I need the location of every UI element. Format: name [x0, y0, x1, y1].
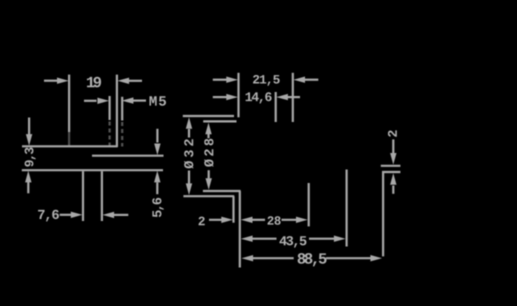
left view: mid step edge H_mid [92, 155, 164, 157]
label 28 [268, 216, 281, 224]
label M5 [149, 96, 166, 105]
dim 14,6: left arrow tail [213, 96, 228, 98]
right view: Ø32 bottom edge [183, 195, 234, 197]
label 21,5 [253, 75, 280, 86]
right view: extension line VR2 (14,6 right) [275, 92, 277, 122]
label 19 [87, 77, 101, 88]
dim 19: right arrow tail [129, 80, 143, 82]
left view: pin extension line V4 (7,6 left) [82, 171, 84, 221]
dim 5,6: bottom arrow stem [156, 183, 158, 195]
label 2 (right, rotated) [388, 130, 397, 136]
right view: extension line V43R (43,5 right) [346, 170, 348, 247]
dim 7,6: left arrow tail [60, 214, 72, 216]
dim 21,5: right arrowhead [293, 77, 305, 83]
dim 28: right arrowhead [296, 217, 308, 223]
dim 9,3: bottom arrowhead [25, 171, 31, 183]
label 43,5 [279, 236, 306, 248]
right view: membrane tick2 [382, 171, 400, 173]
dim 2 (left): arrowhead [221, 217, 233, 223]
dim 2 (right): bottom arrow stem [392, 186, 394, 194]
dim 2 (left): arrow tail [209, 219, 226, 221]
dim M5: left arrow tail [84, 100, 97, 102]
dim 88,5: left arrow tail [252, 257, 294, 259]
left view: extension line V1 (19 left) [68, 75, 70, 132]
dim M5: right arrow tail [133, 99, 146, 101]
dim 7,6: right arrowhead [103, 212, 115, 218]
right view: Ø32 top edge [183, 115, 234, 117]
dim 9,3: top arrowhead [26, 134, 32, 146]
dim Ø32: top arrowhead [186, 117, 192, 129]
label diameter 32 (rotated) [184, 139, 193, 168]
dim 7,6: left arrowhead [71, 212, 83, 218]
dim 5,6: top arrowhead [154, 144, 160, 156]
dim Ø28: bottom arrowhead [206, 178, 212, 190]
right view: extension line V28R (28 right) [308, 183, 310, 226]
dim 5,6: top arrow stem [156, 129, 158, 143]
right view: extension line VR1 (21,5/14,6 left) [237, 73, 239, 118]
left view: M5 thread line V3b [121, 97, 123, 121]
right view: step edge vertical A [232, 196, 234, 223]
dim 21,5: right arrow tail [304, 79, 319, 81]
label 88,5 [298, 253, 327, 266]
label 2 (left) [199, 217, 205, 226]
dim 14,6: right arrowhead [276, 94, 288, 100]
left view: M5 thread line V3 [108, 96, 110, 120]
left view: top face edge H1 [22, 145, 118, 147]
left view: extension line V2 (19 / M5 right) [116, 75, 118, 147]
dim 28: left arrow tail [250, 219, 266, 221]
dim 43,5: right arrow tail [309, 238, 334, 240]
dim 88,5: right arrow tail [326, 257, 371, 259]
dim 9,3: bottom arrow stem [27, 182, 29, 193]
dim 14,6: left arrowhead [226, 94, 238, 100]
dim 21,5: left arrow tail [213, 79, 228, 81]
dim Ø28: top arrowhead [205, 123, 211, 135]
dim 5,6: bottom arrowhead [154, 171, 160, 183]
dim 2 (right): top arrowhead [390, 153, 396, 165]
right view: extension line V88R (88,5 right) [382, 171, 384, 256]
dim Ø28: bottom arrow stem [208, 170, 210, 178]
label 5,6 (rotated) [152, 198, 163, 217]
dim 88,5: left arrowhead [242, 255, 254, 261]
dim 28: left arrowhead [241, 217, 253, 223]
dim 9,3: top arrow stem [28, 118, 30, 135]
dim 2 (right): top arrow stem [392, 139, 394, 153]
dim 2 (right): bottom arrowhead [390, 173, 396, 185]
dim M5: right arrowhead [122, 97, 134, 103]
right view: membrane tick1 [381, 165, 401, 167]
dim 14,6: right arrow tail [287, 96, 300, 98]
left view: pin extension line V5 (7,6 right) [101, 171, 103, 221]
dim 43,5: left arrow tail [250, 238, 277, 240]
dim 43,5: right arrowhead [334, 236, 346, 242]
dim 21,5: left arrowhead [226, 77, 238, 83]
dim 28: right arrow tail [282, 219, 300, 221]
label 9,3 (rotated) [25, 148, 36, 167]
label 7,6 [38, 210, 59, 222]
right view: extension line V28L (2/28/43,5/88,5 left) [239, 191, 241, 268]
dim Ø28: top arrow stem [207, 134, 209, 138]
dim Ø32: top arrow stem [188, 129, 190, 138]
dim M5: left arrowhead [97, 98, 109, 104]
right view: Ø28 top edge [203, 120, 236, 122]
dim 19: left arrow tail [44, 80, 58, 82]
dim 19: right arrowhead [118, 78, 130, 84]
label 14,6 [246, 92, 272, 103]
dim 43,5: left arrowhead [241, 236, 253, 242]
dim Ø32: bottom arrow stem [188, 171, 190, 184]
dim 19: left arrowhead [57, 78, 69, 84]
label diameter 28 (rotated) [204, 139, 213, 167]
right view: Ø28 bottom edge [203, 190, 241, 192]
dim Ø32: bottom arrowhead [186, 183, 192, 195]
dim 7,6: right arrow tail [114, 214, 129, 216]
left view: bottom face edge H2 [22, 169, 163, 171]
right view: extension line VR3 (21,5 right) [292, 73, 294, 122]
dim 88,5: right arrowhead [370, 255, 382, 261]
